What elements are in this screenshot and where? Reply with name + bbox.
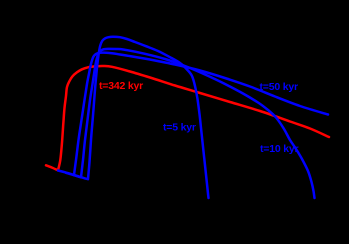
wire: blue spectrum curve t=10 kyr — [66, 49, 315, 198]
wire: blue spectrum curve t=5 kyr — [74, 37, 209, 198]
svg-text:t=10 kyr: t=10 kyr — [260, 143, 299, 155]
svg-text:t=342 kyr: t=342 kyr — [99, 80, 143, 92]
wire: red spectrum curve t=342 kyr — [46, 66, 329, 170]
svg-text:t=5 kyr: t=5 kyr — [163, 122, 196, 134]
wire: blue spectrum curve t=50 kyr — [58, 53, 328, 175]
svg-text:t=50 kyr: t=50 kyr — [260, 81, 299, 93]
